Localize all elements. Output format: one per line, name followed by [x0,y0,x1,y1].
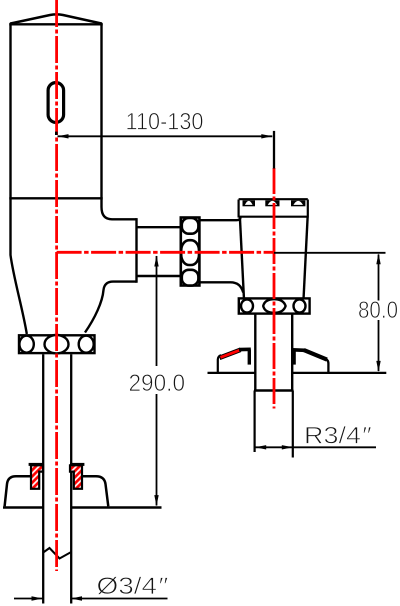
svg-text:R3/4″: R3/4″ [304,423,372,450]
svg-text:80.0: 80.0 [358,297,398,324]
svg-text:Ø3/4″: Ø3/4″ [97,573,169,600]
svg-text:290.0: 290.0 [129,370,186,397]
svg-text:110-130: 110-130 [126,109,204,136]
